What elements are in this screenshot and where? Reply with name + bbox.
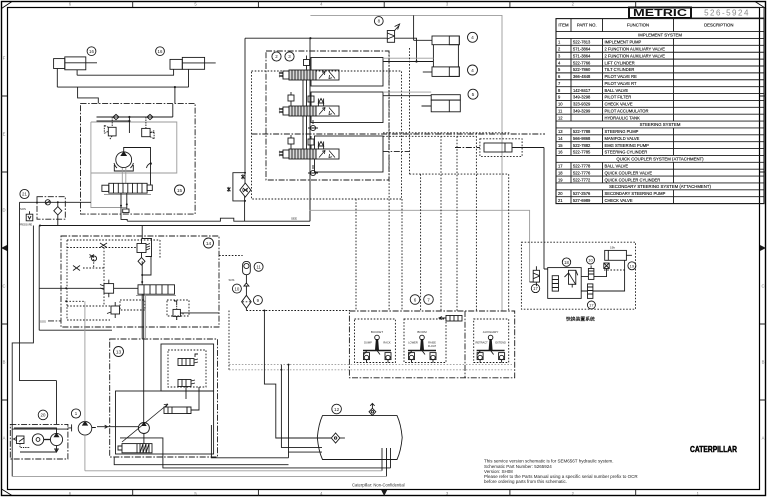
joystick auxiliary [477, 335, 505, 363]
svg-text:EXTEND: EXTEND [495, 341, 506, 345]
box20 loop [14, 381, 58, 452]
svg-text:A: A [762, 436, 765, 441]
right ticks [760, 96, 766, 400]
return from dotted junction to strainer [264, 311, 331, 439]
series links between rows [303, 80, 307, 149]
check circle [45, 200, 50, 205]
box14 reducing valve [100, 280, 114, 298]
SOS tap valve [26, 214, 33, 221]
svg-text:DUMP: DUMP [364, 341, 372, 345]
gray dotted to pilot box [229, 365, 512, 370]
box13 inner dotted [168, 350, 206, 387]
acc wires [245, 275, 247, 311]
svg-text:19b: 19b [610, 246, 615, 250]
svg-text:522-7785: 522-7785 [573, 150, 591, 155]
svg-text:2 FUNCTION AUXILIARY VALVE: 2 FUNCTION AUXILIARY VALVE [605, 47, 666, 52]
svg-text:METRIC: METRIC [633, 7, 688, 19]
wires from cylinders [57, 69, 188, 104]
steering cylinder 16 right [170, 57, 216, 69]
ball valve 8 [387, 24, 399, 42]
svg-text:12: 12 [558, 115, 563, 120]
svg-text:BUCKET: BUCKET [371, 330, 383, 334]
return line 2 [281, 365, 322, 448]
svg-text:19: 19 [558, 177, 563, 182]
METRIC title block [629, 7, 764, 19]
box 20 secondary pump [10, 424, 68, 459]
row2 check [308, 120, 318, 131]
spool row 2 [279, 106, 339, 116]
label 10 [232, 284, 241, 293]
svg-text:10: 10 [234, 286, 239, 291]
pump-spool stems [122, 168, 126, 184]
QC check bottom [588, 284, 593, 299]
box 14 manifold valve [61, 236, 219, 327]
svg-text:B: B [762, 360, 765, 365]
svg-text:RETRACT: RETRACT [475, 341, 488, 345]
svg-text:LOWER: LOWER [408, 341, 418, 345]
wires to cyl 4 [383, 38, 433, 61]
svg-text:C: C [761, 284, 764, 289]
top ticks [133, 1, 636, 7]
dash-dot stub row3 [383, 151, 410, 153]
svg-text:IMPLEMENT PUMP: IMPLEMENT PUMP [605, 40, 642, 45]
centerfold triangles [1, 245, 766, 496]
labels 2 3 [272, 52, 294, 61]
box14 lines [39, 226, 151, 340]
pilot dotted boxes [355, 319, 509, 363]
svg-text:MANIFOLD VALVE: MANIFOLD VALVE [605, 136, 640, 141]
svg-text:PILOT FILTER: PILOT FILTER [605, 95, 632, 100]
svg-text:B: B [3, 360, 6, 365]
suction gray [85, 470, 382, 472]
box14 check diamond [138, 258, 145, 266]
svg-text:4: 4 [471, 68, 474, 74]
svg-text:4: 4 [471, 35, 474, 41]
left drop to bottom [12, 226, 33, 477]
box14 lower valve 2 [173, 305, 184, 320]
svg-text:14: 14 [206, 241, 212, 247]
label 16 left [87, 47, 96, 56]
svg-text:16: 16 [558, 150, 563, 155]
svg-text:11: 11 [256, 265, 261, 270]
svg-text:6: 6 [414, 297, 417, 302]
svg-text:PILOT VALVE RE: PILOT VALVE RE [605, 74, 638, 79]
svg-text:ITEM: ITEM [558, 23, 569, 28]
pump1 gray column [84, 301, 86, 471]
svg-text:SOS: SOS [40, 320, 46, 324]
supply corner SEE [127, 197, 310, 222]
valve row 3 box [315, 136, 384, 172]
box13 vertical [145, 294, 147, 339]
aux cylinder dashed box [480, 139, 522, 157]
dash link [455, 147, 480, 149]
valve row 2 box [311, 92, 383, 123]
box13 out to tank [211, 425, 288, 458]
joystick boom [408, 335, 436, 363]
svg-text:12: 12 [334, 407, 340, 412]
svg-text:PILOT VALVE RT: PILOT VALVE RT [605, 81, 638, 86]
svg-text:527-6989: 527-6989 [573, 198, 591, 203]
lift cylinder 4b [423, 67, 460, 77]
svg-text:17: 17 [533, 286, 538, 291]
label 11 [254, 262, 263, 271]
svg-text:19: 19 [630, 264, 635, 269]
box14 orifices [73, 243, 107, 271]
svg-text:522-7776: 522-7776 [573, 170, 591, 175]
svg-text:13: 13 [558, 129, 563, 134]
aux small cylinder [484, 143, 519, 152]
row3 symbols [288, 135, 324, 150]
gray line to QC [309, 210, 529, 282]
dotted pump1 link [66, 300, 85, 302]
pump1 fitting [68, 424, 96, 431]
svg-text:522-7813: 522-7813 [573, 40, 591, 45]
svg-text:2 FUNCTION AUXILIARY VALVE: 2 FUNCTION AUXILIARY VALVE [605, 53, 666, 58]
steering cylinder 16 left [54, 57, 97, 70]
svg-text:20: 20 [41, 413, 46, 418]
box14 relief [137, 239, 152, 258]
check diamond [54, 207, 62, 215]
svg-text:522-7882: 522-7882 [573, 143, 591, 148]
label 8 [374, 17, 383, 26]
bottom-right notes [484, 458, 638, 484]
svg-text:7: 7 [427, 297, 430, 302]
svg-text:CHECK VALVE: CHECK VALVE [605, 102, 633, 107]
svg-text:522-7788: 522-7788 [573, 129, 591, 134]
svg-text:571-3864: 571-3864 [573, 53, 591, 58]
label 16 right [156, 47, 165, 56]
strainer [331, 433, 345, 443]
svg-text:17: 17 [589, 303, 594, 308]
svg-text:快换装置系统: 快换装置系统 [566, 316, 595, 323]
box13 filter [118, 444, 152, 453]
svg-text:522-7860: 522-7860 [573, 67, 591, 72]
zone numbers top [69, 2, 575, 7]
valve in box20 [14, 436, 31, 448]
pump loop [124, 148, 152, 185]
tilt cylinder 5 [422, 95, 461, 112]
svg-text:SOS: SOS [20, 207, 26, 211]
label 18 [562, 258, 570, 266]
svg-text:571-3864: 571-3864 [573, 47, 591, 52]
valve row 1 box [311, 58, 383, 87]
svg-text:16: 16 [158, 49, 163, 54]
svg-text:SOS: SOS [229, 278, 235, 282]
top supply line [245, 38, 387, 183]
svg-text:C: C [2, 284, 5, 289]
svg-text:BOOM: BOOM [417, 330, 427, 334]
row2 symbols [288, 92, 324, 107]
relief valve v1 [104, 117, 116, 139]
check 10 [244, 283, 249, 286]
svg-text:16: 16 [89, 49, 94, 54]
svg-text:21: 21 [22, 192, 27, 197]
pump 1 [78, 422, 92, 436]
svg-text:FUNCTION: FUNCTION [627, 23, 649, 28]
svg-text:PART NO.: PART NO. [577, 23, 597, 28]
quick coupler box [521, 242, 635, 309]
box13 small cylinder [164, 407, 191, 414]
box 15 steering manifold [81, 103, 196, 214]
relief valve v2 [142, 117, 154, 139]
svg-text:IMPLEMENT SYSTEM: IMPLEMENT SYSTEM [638, 33, 682, 38]
label 15 [175, 185, 185, 195]
zone numbers bottom [69, 491, 700, 496]
dotted pilot horizontals [383, 133, 510, 137]
long gray bottom [12, 475, 386, 477]
svg-text:LIFT CYLINDER: LIFT CYLINDER [605, 60, 635, 65]
QC valve 18 box [548, 268, 582, 299]
main vertical supply [309, 38, 311, 221]
svg-text:10: 10 [588, 258, 593, 263]
label 20 [38, 410, 48, 420]
left ticks [1, 96, 7, 400]
svg-text:EMG STEERING PUMP: EMG STEERING PUMP [605, 143, 650, 148]
svg-text:17: 17 [558, 164, 563, 169]
svg-text:STEERING PUMP: STEERING PUMP [605, 129, 639, 134]
svg-text:349-3298: 349-3298 [573, 95, 591, 100]
cyl 4 frame [433, 45, 458, 67]
svg-text:FLOAT: FLOAT [428, 344, 437, 348]
motor circle [32, 434, 43, 445]
label 9 [253, 296, 262, 305]
rod position link [413, 15, 415, 40]
labels 4 [468, 32, 478, 75]
svg-text:15: 15 [558, 143, 563, 148]
accumulator 11 [243, 261, 251, 274]
box14 spool [138, 285, 175, 294]
svg-text:BALL VALVE: BALL VALVE [605, 88, 629, 93]
label 12 [332, 404, 342, 414]
svg-text:5: 5 [472, 92, 475, 98]
solenoid valve 1 [178, 354, 198, 366]
filter bypass loop [233, 173, 245, 201]
black line to QC [519, 148, 545, 270]
svg-text:before ordering parts from thi: before ordering parts from this schemati… [484, 479, 567, 484]
SOS tap left [48, 320, 61, 322]
svg-text:349-3299: 349-3299 [573, 108, 591, 113]
svg-text:142-8417: 142-8417 [573, 88, 591, 93]
svg-text:STEERING CYLINDER: STEERING CYLINDER [605, 150, 648, 155]
svg-text:CATERPILLAR: CATERPILLAR [690, 444, 737, 454]
gray pilot supply top line [310, 15, 502, 311]
svg-text:SECONDARY STEERING PUMP: SECONDARY STEERING PUMP [605, 191, 666, 196]
box 21 secondary check [37, 197, 65, 220]
svg-text:D: D [2, 208, 5, 213]
wires item 21 [20, 202, 311, 380]
steering pump motor [114, 152, 133, 171]
svg-text:E: E [3, 132, 6, 137]
svg-text:15: 15 [177, 188, 183, 194]
label 5 [468, 89, 478, 99]
joystick bucket [363, 335, 391, 363]
svg-text:BALL VALVE: BALL VALVE [605, 164, 629, 169]
svg-text:HYDRAULIC TANK: HYDRAULIC TANK [605, 115, 641, 120]
QC spool [552, 276, 558, 291]
filter 9 [242, 295, 252, 308]
svg-text:Version: SH08: Version: SH08 [484, 469, 513, 474]
pump circle 20 [44, 433, 63, 445]
wires to cyl 5 [383, 95, 431, 97]
box 13 pilot supply [110, 339, 218, 457]
node line with check diamonds [97, 104, 173, 133]
box13 pump [122, 404, 168, 442]
svg-text:11: 11 [558, 108, 563, 113]
inner gray box [91, 122, 177, 208]
box13 lower solid box [116, 391, 214, 454]
svg-text:SEE: SEE [291, 217, 297, 221]
spool row 1 [279, 70, 339, 80]
svg-text:323-9329: 323-9329 [573, 102, 591, 107]
svg-text:SECONDARY STEERING SYSTEM (ATT: SECONDARY STEERING SYSTEM (ATTACHMENT) [609, 184, 711, 189]
svg-text:10: 10 [558, 102, 563, 107]
svg-text:TILT CYLINDER: TILT CYLINDER [605, 67, 635, 72]
svg-text:Caterpillar: Non-Confidential: Caterpillar: Non-Confidential [352, 483, 405, 488]
svg-text:566-9868: 566-9868 [573, 136, 591, 141]
svg-text:RACK: RACK [383, 341, 390, 345]
solenoid valve 2 [178, 380, 195, 387]
svg-text:522-7778: 522-7778 [573, 164, 591, 169]
parts table [556, 19, 764, 204]
svg-text:DESCRIPTION: DESCRIPTION [704, 23, 733, 28]
svg-text:QUICK COUPLER CYLINDER: QUICK COUPLER CYLINDER [605, 177, 661, 182]
box13 top solid box [161, 344, 214, 391]
tank return verticals [382, 448, 391, 476]
orbitrol spool [102, 183, 152, 193]
valve block dash-dot box 2/3 [266, 51, 389, 180]
svg-text:13: 13 [116, 349, 122, 355]
svg-text:18: 18 [564, 260, 569, 265]
svg-text:CHECK VALVE: CHECK VALVE [605, 198, 633, 203]
svg-text:366-4848: 366-4848 [573, 74, 591, 79]
svg-text:18: 18 [558, 170, 563, 175]
dotted aux box [252, 71, 402, 199]
svg-text:527-2576: 527-2576 [573, 191, 591, 196]
QC wires [530, 260, 625, 291]
small spool top [439, 316, 462, 322]
lift cylinder 4a [414, 36, 460, 45]
svg-text:This service version schematic: This service version schematic is for SE… [484, 458, 613, 463]
label 17 [531, 284, 539, 292]
row1 check symbol [304, 56, 310, 70]
dotted pilot verticals [356, 48, 509, 311]
label 13 [114, 347, 124, 357]
spool outlets [121, 193, 127, 221]
divider dash-dot [252, 133, 546, 135]
svg-text:522-7772: 522-7772 [573, 177, 591, 182]
svg-text:PRESSURE: PRESSURE [19, 224, 33, 227]
spool row 3 [279, 149, 339, 159]
svg-text:14: 14 [558, 136, 563, 141]
svg-text:QUICK COUPLER VALVE: QUICK COUPLER VALVE [605, 170, 653, 175]
return line 3 [289, 365, 323, 453]
svg-text:F: F [3, 56, 6, 61]
breather [369, 403, 376, 415]
pilot valve box 6 7 [349, 311, 514, 378]
hydraulic tank 12 [317, 416, 402, 460]
labels 6 7 [410, 295, 433, 305]
svg-text:AUXILIARY: AUXILIARY [483, 330, 499, 334]
svg-text:526-5924: 526-5924 [704, 8, 750, 17]
svg-text:A: A [3, 436, 6, 441]
row3 check [308, 165, 318, 176]
box13 lower return [114, 457, 288, 465]
left feed lines [12, 428, 67, 430]
filter on supply [240, 183, 251, 197]
box13 return loop [120, 438, 391, 468]
box14 inner dotted [67, 240, 160, 320]
svg-text:20: 20 [558, 191, 563, 196]
QC relief cartridge [565, 270, 578, 287]
svg-text:21: 21 [558, 198, 563, 203]
label 21 [20, 189, 29, 198]
bottom ticks [133, 490, 636, 496]
label 1 [71, 409, 80, 418]
QC cylinder 19 [604, 250, 632, 268]
svg-text:QUICK COUPLER SYSTEM (ATTACHME: QUICK COUPLER SYSTEM (ATTACHMENT) [616, 157, 704, 162]
svg-text:STEERING SYSTEM: STEERING SYSTEM [640, 122, 681, 127]
label 14 [204, 238, 214, 248]
zone letters left [2, 56, 5, 441]
ball valve 17 [533, 266, 539, 282]
svg-text:522-7766: 522-7766 [573, 60, 591, 65]
box14 dashed subbox [120, 300, 189, 316]
box14 lower valve 1 [107, 302, 120, 318]
svg-text:PILOT ACCUMULATOR: PILOT ACCUMULATOR [605, 108, 649, 113]
QC check top [588, 266, 594, 280]
